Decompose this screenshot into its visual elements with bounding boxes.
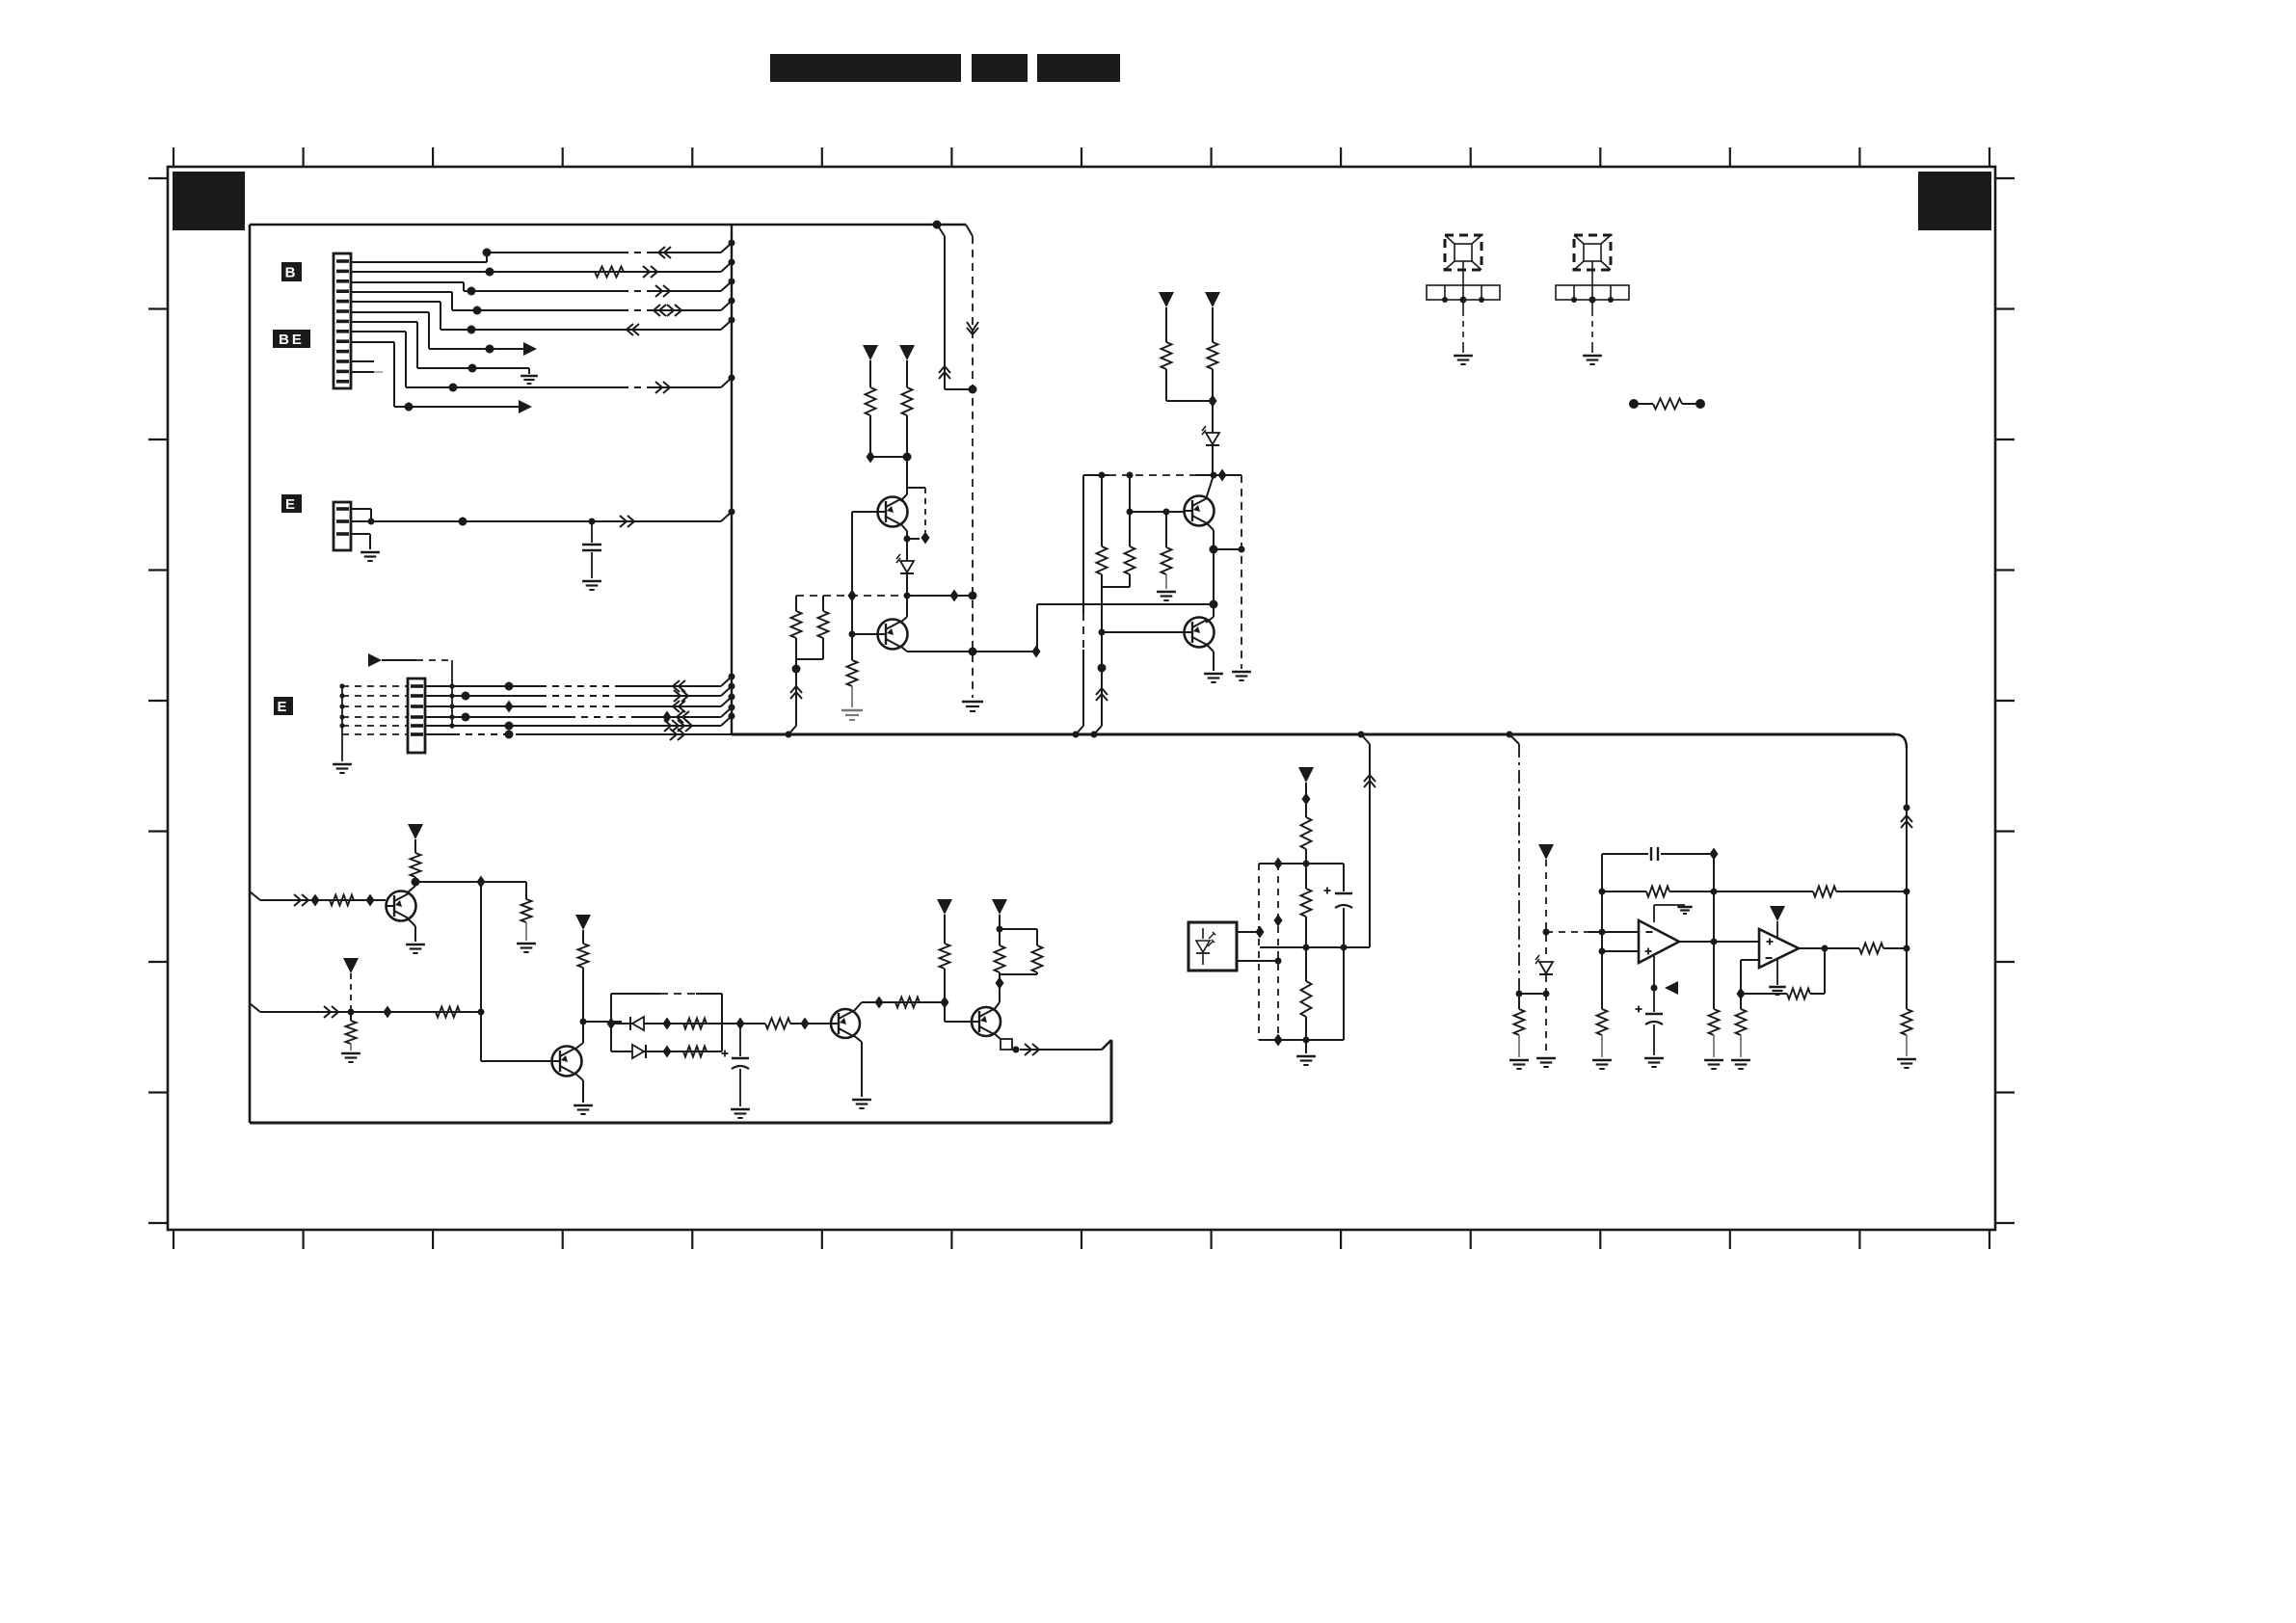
Q7 collector branch <box>853 997 945 1013</box>
dashed to ground 1604 <box>1536 994 1556 1067</box>
capacitor C5 polarized <box>1636 1006 1664 1068</box>
outer border frame <box>168 167 1995 1230</box>
label E lower <box>274 697 293 715</box>
inner box top edge <box>250 221 966 229</box>
E2 wire 4 <box>425 705 735 724</box>
link 1576-1604 <box>1519 993 1546 995</box>
dashed left edge <box>1258 864 1260 1040</box>
U2 supply arrow <box>1770 906 1785 921</box>
resistor R14 <box>1301 947 1312 1044</box>
resistor R1 <box>330 894 375 907</box>
resistor R12 <box>1301 817 1312 864</box>
resistor R-h horizontal <box>1629 399 1705 410</box>
U2 ground <box>1769 987 1786 995</box>
U1 inverting input wire <box>1546 929 1639 936</box>
network top rail <box>1259 858 1344 870</box>
U1 power stub <box>1654 905 1693 922</box>
title bar block 2 <box>972 54 1028 82</box>
U1 noninverting input wire <box>1599 948 1640 955</box>
feedback bus vertical <box>1901 748 1912 1009</box>
Q2 emitter wire <box>900 646 1041 658</box>
supply arrow VCC1 <box>863 345 878 387</box>
U2 output wire <box>1799 947 1859 949</box>
wire B8 <box>351 332 735 393</box>
resistor R6 <box>578 930 589 968</box>
wire B5 <box>351 302 735 335</box>
U2 inverting wire <box>1737 960 1760 1000</box>
resistor R2 <box>411 839 421 877</box>
connector CN-E2 body <box>408 678 425 753</box>
supply arrow VCC10 <box>1538 844 1554 860</box>
label B <box>281 262 302 281</box>
supply arrow VCC5 <box>408 824 423 839</box>
network right edge <box>1343 864 1345 1040</box>
zener D1 <box>896 554 914 617</box>
supply arrow VCC3 <box>1159 292 1174 342</box>
resistor R-g <box>1157 509 1176 601</box>
transistor Q3 <box>1185 496 1215 526</box>
black corner square left <box>173 172 245 230</box>
resistor R18 <box>1711 887 1910 897</box>
Q2 collector lead <box>900 617 907 623</box>
Q6 collector branch <box>574 968 587 1050</box>
op-amp U2 <box>1759 921 1799 985</box>
feedback capacitor C4 <box>1602 847 1719 861</box>
E2 wire 1 <box>425 674 735 693</box>
U2 feedback resistor R20 <box>1741 945 1829 999</box>
capacitor C2 polarized <box>722 1024 750 1118</box>
transistor Q4 <box>1185 618 1215 648</box>
dashed stub Q1 <box>904 488 930 545</box>
entry wire 1 <box>250 891 386 907</box>
resistor R13 <box>1301 864 1312 951</box>
mid rail <box>1260 945 1370 951</box>
resistor R16 <box>1592 1009 1612 1069</box>
dashed vertical net 1009 <box>966 225 978 698</box>
wire Q8 out to border notch <box>1020 1040 1111 1050</box>
resistor R-b <box>902 387 913 494</box>
resistor pair left A <box>786 596 803 738</box>
Q4 collector lead <box>1206 617 1214 623</box>
Q3 collector lead <box>1206 475 1214 499</box>
Q4 emitter to ground <box>1204 644 1223 682</box>
Q3 emitter lead <box>1206 522 1218 617</box>
feed riser from net line <box>1358 732 1376 948</box>
svg-text:E: E <box>277 699 289 715</box>
input node vertical <box>1599 854 1606 1009</box>
optocoupler U3 <box>1188 922 1237 971</box>
feedback resistor R17 <box>1602 887 1813 897</box>
Q4 base wire <box>1102 631 1184 633</box>
resistor R-a <box>866 387 908 464</box>
riser to Q4 row <box>1037 600 1218 652</box>
inner box left edge <box>249 225 252 1123</box>
transistor Q1 <box>852 497 908 527</box>
E2 wire 5 <box>425 713 735 732</box>
title bar block 3 <box>1037 54 1120 82</box>
resistor R8 <box>895 998 920 1008</box>
base rail 1172 <box>1127 475 1185 546</box>
supply arrow VCC4 <box>1205 292 1220 342</box>
E2 wire 3 <box>425 694 735 713</box>
supply arrow VCC7 <box>937 899 952 944</box>
network out wire <box>722 1018 765 1030</box>
label E upper <box>281 494 302 513</box>
wire B9 stub <box>351 342 532 413</box>
wire B1 <box>351 240 735 263</box>
resistor R11 parallel <box>1000 929 1043 974</box>
wire to diode network <box>583 1021 622 1023</box>
resistor R-c <box>841 660 863 720</box>
output node vertical <box>1713 854 1715 1009</box>
Q5 emitter ground <box>406 918 425 953</box>
Q7 emitter ground <box>852 1035 871 1108</box>
connector CN-E1 body <box>334 502 351 550</box>
dashed drop 1604 <box>1543 860 1550 960</box>
op-amp U1 <box>1639 920 1679 963</box>
Q1 emitter lead <box>900 523 907 561</box>
resistor R7 <box>740 1018 831 1030</box>
inner box bottom edge <box>250 1040 1111 1123</box>
long horizontal net line <box>732 734 1907 748</box>
Q8 collector branch <box>994 972 1004 1010</box>
dashed node row <box>796 590 973 602</box>
title bar block 1 <box>770 54 961 82</box>
supply arrow VCC9 <box>1298 767 1314 817</box>
network bottom rail <box>1259 1039 1344 1041</box>
resistor R10 <box>995 926 1005 973</box>
vertical link node <box>478 882 553 1061</box>
resistor R23 <box>1897 1009 1916 1068</box>
collector node wire <box>415 876 526 889</box>
U1 output wire <box>1679 939 1759 945</box>
connector spare pin stubs <box>351 361 383 372</box>
Q1 collector lead <box>900 494 907 501</box>
emitter link to dashed <box>1214 546 1245 553</box>
resistor R21 <box>1731 994 1750 1069</box>
resistor pair left B <box>796 596 829 659</box>
ground for dashed net <box>962 702 983 711</box>
resistor R-d <box>1161 342 1214 401</box>
wire B6 stub <box>351 312 537 356</box>
dashed inner edge <box>1274 864 1283 1047</box>
E2 wire 2 <box>425 683 735 703</box>
E1 pin1 jumper <box>351 509 375 525</box>
resistor R22 <box>1859 944 1910 954</box>
diode network frame <box>611 994 722 1051</box>
diode D4 row <box>611 1045 722 1058</box>
dash-dot riser <box>1507 732 1523 998</box>
svg-text:B: B <box>285 265 299 281</box>
capacitor C3 polarized <box>1324 888 1353 909</box>
LED display DS1 <box>1427 235 1500 364</box>
U1 bottom pin <box>1651 956 1679 1012</box>
E2 wire 6 <box>425 729 732 740</box>
LED display DS2 <box>1556 235 1629 364</box>
entry wire 2 <box>250 1003 481 1019</box>
E1 signal wire <box>351 509 735 528</box>
Q5 collector branch <box>408 877 420 892</box>
dashed row y493 <box>1083 469 1241 482</box>
resistor R-f <box>1125 546 1135 587</box>
resistor R9 <box>940 944 973 1022</box>
bus vertical line <box>731 225 733 734</box>
dashed supply drop <box>343 958 359 1012</box>
E2 left common vertical <box>333 683 352 773</box>
zener D2 <box>1202 426 1219 479</box>
resistor R15 <box>1509 994 1529 1069</box>
transistor Q8 <box>972 1007 1001 1036</box>
transistor Q5 <box>387 891 416 921</box>
Q8 emitter out <box>994 1033 1039 1055</box>
Q6 emitter ground <box>574 1073 593 1114</box>
transistor Q7 <box>831 1009 860 1038</box>
wire B2 <box>351 259 735 279</box>
capacitor C-E1 <box>582 521 601 590</box>
dashed drop 1288 <box>1232 475 1251 680</box>
supply arrow VCC2 <box>899 345 915 387</box>
net riser 1124 <box>1073 475 1084 738</box>
frame tick marks <box>148 147 2015 1249</box>
wire B4 <box>351 292 735 316</box>
wire B7 to ground <box>351 322 538 384</box>
svg-text:E: E <box>285 496 298 513</box>
resistor R19 <box>1704 1009 1723 1069</box>
E1 pin3 to ground <box>351 534 380 561</box>
black corner square right <box>1918 172 1991 230</box>
resistor R-e <box>1208 342 1218 433</box>
E2 arrow feed <box>368 653 455 729</box>
joining link <box>1102 586 1130 588</box>
net riser 1143 <box>1091 472 1108 738</box>
supply arrow VCC8 <box>992 899 1007 929</box>
label B E <box>273 330 310 348</box>
resistor R4 <box>436 1007 460 1018</box>
svg-text:BE: BE <box>279 332 305 348</box>
wire corner to vertical 980 <box>937 225 977 394</box>
zener D5 <box>1535 955 1553 998</box>
transistor Q2 <box>852 620 908 650</box>
resistor R5 <box>341 1012 360 1062</box>
base rail vertical <box>849 512 856 660</box>
E2 left dashed stubs <box>342 686 408 734</box>
diode D3 row <box>607 1017 723 1030</box>
resistor R3 <box>517 882 536 952</box>
wire B3 <box>351 279 735 298</box>
transistor Q6 <box>552 1047 582 1077</box>
opto pin wires <box>1237 926 1282 965</box>
connector CN-B body <box>334 253 351 388</box>
network ground <box>1296 1040 1316 1065</box>
supply arrow VCC6 <box>575 915 591 930</box>
